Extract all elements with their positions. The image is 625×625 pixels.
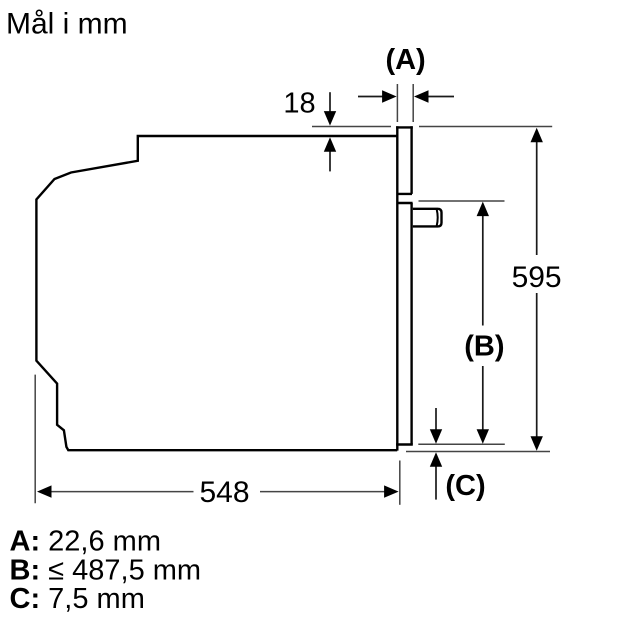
svg-text:B: ≤ 487,5 mm: B: ≤ 487,5 mm xyxy=(10,555,202,587)
svg-text:(C): (C) xyxy=(445,470,485,502)
svg-text:18: 18 xyxy=(283,88,315,120)
svg-text:Mål i mm: Mål i mm xyxy=(6,8,128,41)
svg-text:(A): (A) xyxy=(385,44,425,76)
svg-text:(B): (B) xyxy=(464,331,504,363)
svg-text:C: 7,5 mm: C: 7,5 mm xyxy=(10,583,145,615)
svg-text:548: 548 xyxy=(199,476,249,509)
svg-text:595: 595 xyxy=(512,261,562,294)
svg-text:A: 22,6 mm: A: 22,6 mm xyxy=(10,526,161,558)
